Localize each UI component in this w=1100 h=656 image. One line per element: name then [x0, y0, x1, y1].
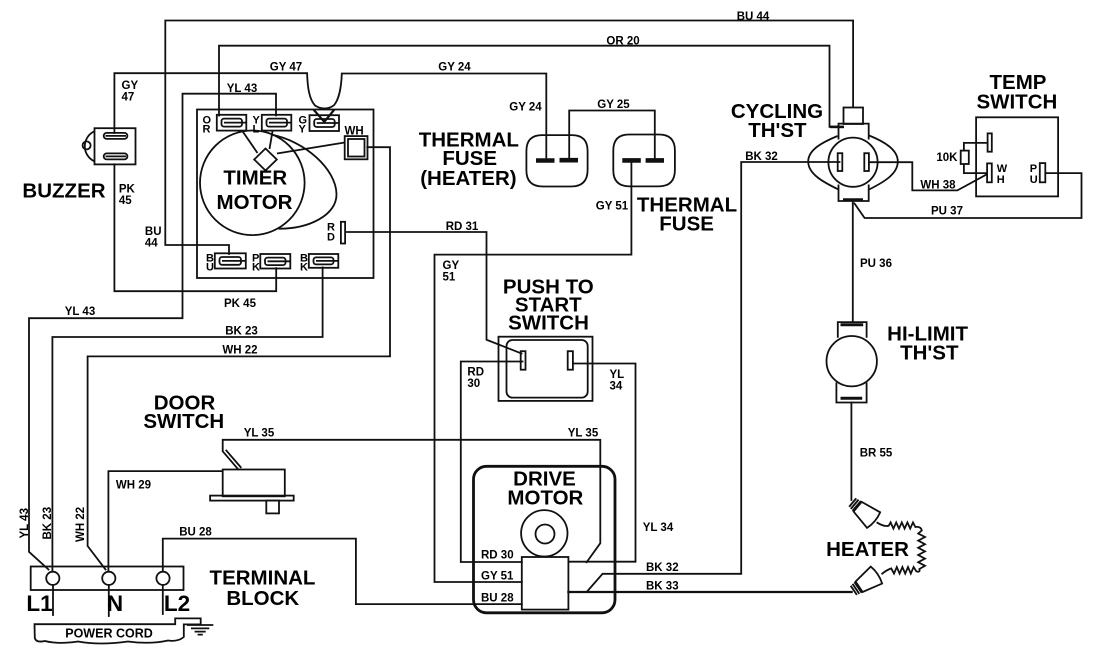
wire GY 47 — [114, 73, 324, 133]
door switch body — [223, 470, 285, 497]
svg-text:YL: YL — [610, 369, 625, 381]
svg-text:34: 34 — [610, 381, 623, 393]
svg-text:GY 25: GY 25 — [597, 99, 630, 111]
svg-text:BLOCK: BLOCK — [226, 587, 299, 610]
svg-text:BK 33: BK 33 — [646, 581, 679, 593]
door switch arm — [223, 450, 242, 470]
svg-text:WH 38: WH 38 — [920, 180, 956, 192]
svg-text:RD 31: RD 31 — [446, 221, 479, 233]
svg-text:47: 47 — [122, 92, 135, 104]
temp switch P/U contact — [1040, 163, 1046, 182]
svg-text:RD: RD — [467, 367, 484, 379]
svg-text:L: L — [253, 124, 260, 136]
svg-text:OR 20: OR 20 — [606, 36, 639, 48]
heater coil — [877, 522, 925, 574]
wire BU 44 — [165, 21, 853, 255]
svg-text:GY 51: GY 51 — [596, 201, 629, 213]
svg-text:45: 45 — [119, 195, 132, 207]
svg-text:HEATER: HEATER — [826, 538, 909, 561]
terminal WH — [345, 136, 368, 159]
wire BR 55 — [850, 403, 852, 501]
terminal N — [102, 572, 115, 585]
svg-text:51: 51 — [443, 272, 456, 284]
wire PU 37 — [855, 173, 1082, 218]
svg-text:FUSE: FUSE — [659, 213, 714, 236]
wire BK 23 — [52, 267, 322, 571]
svg-text:YL 43: YL 43 — [227, 83, 257, 95]
cycling thermostat bottom bar — [843, 198, 863, 201]
svg-text:SWITCH: SWITCH — [976, 91, 1057, 114]
push to start switch outer box — [499, 337, 593, 401]
svg-text:PK 45: PK 45 — [224, 298, 257, 310]
terminal OR — [217, 115, 247, 131]
svg-text:L2: L2 — [164, 591, 190, 616]
timer motor circle — [200, 131, 305, 236]
svg-text:TH'ST: TH'ST — [748, 119, 807, 142]
wire L2 stub — [162, 586, 164, 614]
svg-text:YL 43: YL 43 — [19, 508, 31, 538]
svg-text:YL 35: YL 35 — [568, 428, 599, 440]
link YL to diamond — [270, 131, 273, 149]
svg-text:R: R — [203, 124, 211, 136]
wire OR 20 — [219, 46, 838, 127]
cycling thermostat top flange — [839, 124, 869, 140]
wire WH 38 — [869, 162, 987, 190]
power cord outline — [35, 618, 201, 643]
svg-text:BU 28: BU 28 — [179, 527, 212, 539]
thermal fuse contacts — [622, 158, 664, 163]
svg-text:BU: BU — [145, 226, 162, 238]
ground symbol — [187, 625, 213, 635]
door switch stem — [266, 501, 279, 514]
wire YL 34 — [568, 364, 635, 562]
heater top connector — [846, 495, 881, 529]
thermal fuse body — [613, 135, 675, 187]
drive motor terminal block — [522, 557, 569, 610]
svg-text:WH: WH — [345, 126, 364, 138]
svg-text:WH 22: WH 22 — [222, 345, 257, 357]
terminal YL — [262, 115, 292, 131]
svg-text:GY 51: GY 51 — [481, 571, 514, 583]
wire PU 36 — [852, 202, 854, 323]
wire GY 25 — [569, 111, 655, 158]
hi-limit circle — [827, 336, 877, 386]
temp switch 10K bracket — [964, 143, 988, 173]
cycling thermostat left wing — [808, 136, 838, 190]
svg-text:WH 29: WH 29 — [116, 480, 151, 492]
temp switch W/H contact — [987, 163, 992, 182]
thermal fuse (heater) body — [526, 135, 587, 186]
svg-text:GY 47: GY 47 — [270, 62, 302, 74]
svg-text:N: N — [107, 591, 123, 616]
resistor 10K — [961, 151, 969, 164]
wire PK 45 — [114, 164, 276, 291]
svg-text:D: D — [327, 232, 335, 244]
svg-text:POWER CORD: POWER CORD — [65, 627, 153, 641]
svg-text:L1: L1 — [26, 591, 52, 616]
svg-text:GY: GY — [122, 80, 139, 92]
terminal BU — [215, 253, 246, 268]
svg-text:BK 23: BK 23 — [225, 326, 258, 338]
terminal GY — [310, 115, 340, 131]
wire WH 22 — [88, 147, 390, 569]
svg-text:GY 24: GY 24 — [509, 102, 542, 114]
hi-limit top cup — [838, 322, 867, 338]
svg-text:BR 55: BR 55 — [860, 448, 893, 460]
drive motor pulley — [521, 510, 567, 556]
svg-text:RD 30: RD 30 — [481, 550, 514, 562]
timer box — [197, 110, 374, 279]
wire WH 29 — [108, 471, 221, 571]
wire YL 43 — [29, 94, 276, 570]
terminal L2 — [156, 572, 169, 585]
drive motor box — [474, 466, 616, 613]
svg-text:BU 44: BU 44 — [737, 11, 770, 23]
svg-text:K: K — [300, 262, 308, 274]
cycling thermostat circle — [828, 138, 877, 187]
push to start switch inner box — [507, 340, 588, 398]
heater bottom connector — [848, 566, 883, 599]
wire BU 28 — [163, 539, 522, 605]
svg-text:TIMER: TIMER — [223, 167, 287, 190]
link OR to diamond — [242, 131, 258, 154]
junction V at GY terminal — [314, 111, 333, 122]
svg-text:TH'ST: TH'ST — [900, 342, 959, 365]
cycling thermostat cap — [844, 108, 864, 125]
cycling thermostat bottom flange — [839, 185, 869, 202]
wire N stub — [108, 586, 110, 616]
svg-text:BUZZER: BUZZER — [22, 180, 105, 203]
svg-text:MOTOR: MOTOR — [507, 487, 583, 510]
svg-text:H: H — [997, 174, 1005, 186]
svg-text:BK 23: BK 23 — [42, 507, 54, 540]
thermal fuse (heater) contacts — [536, 158, 578, 163]
temp switch box — [976, 117, 1058, 196]
svg-text:K: K — [252, 262, 260, 274]
terminal PK — [260, 254, 290, 269]
temp switch top contact — [988, 133, 992, 151]
svg-text:GY 24: GY 24 — [438, 62, 471, 74]
svg-text:YL 34: YL 34 — [643, 522, 674, 534]
svg-text:PU 37: PU 37 — [931, 206, 963, 218]
wire BK 32 — [587, 162, 840, 592]
cycling thermostat contacts — [838, 153, 843, 171]
svg-text:MOTOR: MOTOR — [217, 191, 293, 214]
svg-text:YL 35: YL 35 — [244, 428, 275, 440]
buzzer — [95, 128, 136, 164]
svg-text:SWITCH: SWITCH — [508, 312, 589, 335]
wire L1 stub — [52, 585, 54, 615]
svg-text:PK: PK — [119, 184, 136, 196]
push to start left contact — [521, 351, 526, 370]
wire RD 30 — [461, 362, 523, 563]
svg-text:BU 28: BU 28 — [481, 593, 514, 605]
svg-text:WH 22: WH 22 — [75, 507, 87, 542]
push to start right contact — [568, 351, 573, 370]
svg-text:44: 44 — [145, 238, 158, 250]
wire GY 51 — [435, 163, 632, 582]
terminal BK — [309, 254, 339, 268]
terminal L1 — [46, 572, 59, 585]
wire BK 33 — [568, 591, 851, 593]
svg-text:10K: 10K — [936, 152, 958, 164]
timer cam lobe — [271, 135, 337, 229]
timer cam diamond — [254, 149, 277, 171]
svg-text:BK 32: BK 32 — [646, 562, 679, 574]
svg-text:Y: Y — [299, 124, 307, 136]
svg-text:U: U — [1030, 174, 1038, 186]
link diamond to WH — [277, 143, 345, 154]
svg-text:(HEATER): (HEATER) — [420, 167, 516, 190]
svg-text:YL 43: YL 43 — [65, 306, 95, 318]
door switch base — [210, 496, 294, 501]
svg-text:SWITCH: SWITCH — [143, 410, 224, 433]
svg-text:BK 32: BK 32 — [745, 151, 778, 163]
hi-limit bottom cup — [836, 382, 866, 402]
svg-text:GY: GY — [443, 260, 460, 272]
wire RD 31 — [347, 232, 522, 354]
svg-text:PU 36: PU 36 — [860, 258, 892, 270]
terminal block — [31, 567, 184, 591]
svg-text:30: 30 — [467, 378, 480, 390]
svg-text:U: U — [206, 262, 214, 274]
cycling thermostat right wing — [869, 136, 898, 190]
wire GY 24 — [325, 74, 547, 158]
terminal RD bar — [341, 222, 345, 244]
wire YL 35 — [223, 440, 601, 563]
